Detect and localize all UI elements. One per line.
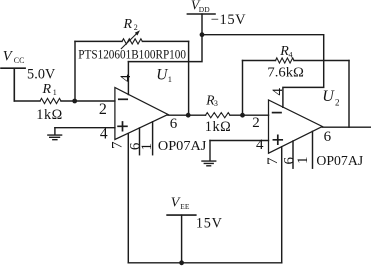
U1 pin 6 stub xyxy=(139,128,141,155)
wire feedback left vertical xyxy=(74,41,76,101)
svg-text:2: 2 xyxy=(134,23,138,32)
node U1 output xyxy=(186,113,191,118)
wire feedback right vertical to U1 output xyxy=(188,41,190,115)
ground xyxy=(202,141,216,166)
wire R1 to U1 pin 2 xyxy=(61,100,115,102)
svg-text:7: 7 xyxy=(110,141,126,149)
svg-text:−15V: −15V xyxy=(211,12,247,28)
svg-text:2: 2 xyxy=(99,101,107,118)
power symbol VCC xyxy=(1,68,25,101)
svg-text:1kΩ: 1kΩ xyxy=(36,107,62,123)
wire VEE to bottom rail xyxy=(181,215,183,263)
U2 plus input mark xyxy=(273,135,282,144)
resistor R2 xyxy=(122,39,142,44)
svg-text:5.0V: 5.0V xyxy=(27,66,56,82)
svg-text:EE: EE xyxy=(180,202,190,211)
svg-text:4: 4 xyxy=(118,74,134,82)
wire R3 to U2 pin 2 xyxy=(230,114,269,116)
resistor R3 xyxy=(206,113,231,118)
svg-text:4: 4 xyxy=(256,137,264,153)
svg-text:1: 1 xyxy=(53,88,57,97)
node junction R1/R2 xyxy=(72,99,77,104)
svg-text:1: 1 xyxy=(139,143,155,151)
wire U1 pin4 to VDD xyxy=(128,14,202,62)
power symbol VDD xyxy=(187,13,215,15)
node R3/R4 xyxy=(240,113,245,118)
ground xyxy=(48,128,62,140)
R2 trim arrow xyxy=(121,34,136,49)
U1 pin 1 stub xyxy=(152,122,154,155)
wire R4 left xyxy=(243,60,276,62)
U2 pin 1 stub xyxy=(312,131,314,168)
svg-text:6: 6 xyxy=(170,116,178,132)
svg-text:OP07AJ: OP07AJ xyxy=(316,154,363,169)
svg-text:2: 2 xyxy=(252,115,259,131)
wire feedback top right xyxy=(143,40,189,42)
U2 pin 7 wire (down to VEE rail) xyxy=(281,147,283,263)
svg-text:4: 4 xyxy=(289,51,293,60)
U1 minus input mark xyxy=(119,98,127,100)
wire U2 output xyxy=(322,126,371,128)
U1 pin 4 stub (top) xyxy=(127,62,129,95)
wire VDD to U2 pin 4 xyxy=(202,35,324,108)
svg-text:V: V xyxy=(171,195,181,210)
wire R4 left vertical xyxy=(242,61,244,116)
wire R4 right vertical to U2 output xyxy=(348,61,350,128)
wire U1 output xyxy=(168,114,206,116)
U1 pin 7 wire (down to VEE rail) xyxy=(127,134,129,263)
svg-text:6: 6 xyxy=(324,129,332,145)
svg-text:U: U xyxy=(156,67,168,84)
resistor R4 xyxy=(276,58,294,63)
node VEE/bottom rail xyxy=(179,260,184,265)
svg-text:4: 4 xyxy=(100,126,108,143)
svg-text:15V: 15V xyxy=(196,216,223,232)
svg-text:R: R xyxy=(123,17,133,32)
U2 pin 6 stub xyxy=(292,141,294,168)
wire VCC to R1 xyxy=(14,100,40,102)
wire ground to U1 pin 4 (+) xyxy=(55,127,115,129)
wire feedback top left xyxy=(75,40,122,42)
wire R4 right xyxy=(294,60,349,62)
svg-text:V: V xyxy=(3,48,14,64)
svg-text:3: 3 xyxy=(214,99,218,108)
svg-text:1kΩ: 1kΩ xyxy=(205,119,231,135)
power symbol VEE xyxy=(167,214,196,216)
U2 minus input mark xyxy=(273,112,281,114)
svg-text:2: 2 xyxy=(335,98,340,108)
op-amp U1 xyxy=(115,88,168,140)
svg-text:R: R xyxy=(42,82,52,97)
wire ground to U2 pin 4 (+) xyxy=(210,140,269,142)
svg-text:OP07AJ: OP07AJ xyxy=(158,139,207,154)
U1 plus input mark xyxy=(118,122,127,131)
svg-text:PTS120601B100RP100: PTS120601B100RP100 xyxy=(78,48,186,62)
svg-text:U: U xyxy=(322,88,335,105)
node VDD xyxy=(200,32,205,37)
svg-text:1: 1 xyxy=(295,157,311,165)
svg-text:1: 1 xyxy=(168,74,172,84)
svg-text:4: 4 xyxy=(270,87,286,95)
svg-text:CC: CC xyxy=(14,56,25,65)
op-amp U2 xyxy=(269,100,323,153)
svg-text:DD: DD xyxy=(199,5,210,14)
wire bottom rail xyxy=(128,262,281,264)
resistor R1 xyxy=(40,98,61,103)
svg-text:7: 7 xyxy=(265,157,281,165)
svg-text:7.6kΩ: 7.6kΩ xyxy=(267,65,304,80)
